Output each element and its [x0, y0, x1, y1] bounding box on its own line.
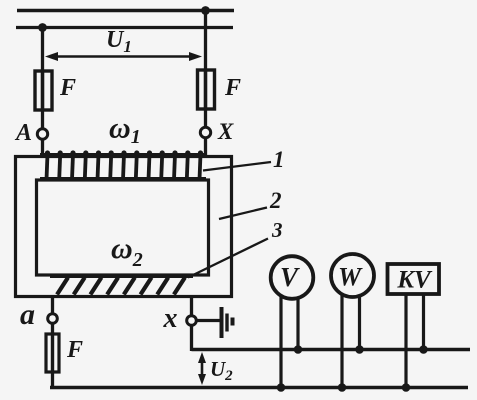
svg-text:KV: KV — [396, 267, 433, 294]
svg-text:1: 1 — [273, 147, 285, 172]
svg-text:F: F — [66, 337, 83, 363]
svg-text:A: A — [14, 120, 32, 146]
svg-text:3: 3 — [271, 218, 283, 242]
svg-text:X: X — [217, 119, 234, 144]
svg-text:F: F — [224, 75, 241, 101]
svg-text:a: a — [20, 298, 35, 331]
svg-text:V: V — [280, 262, 300, 292]
svg-text:2: 2 — [269, 188, 282, 213]
svg-text:x: x — [163, 303, 178, 334]
svg-text:F: F — [59, 75, 76, 101]
svg-text:W: W — [338, 263, 363, 292]
